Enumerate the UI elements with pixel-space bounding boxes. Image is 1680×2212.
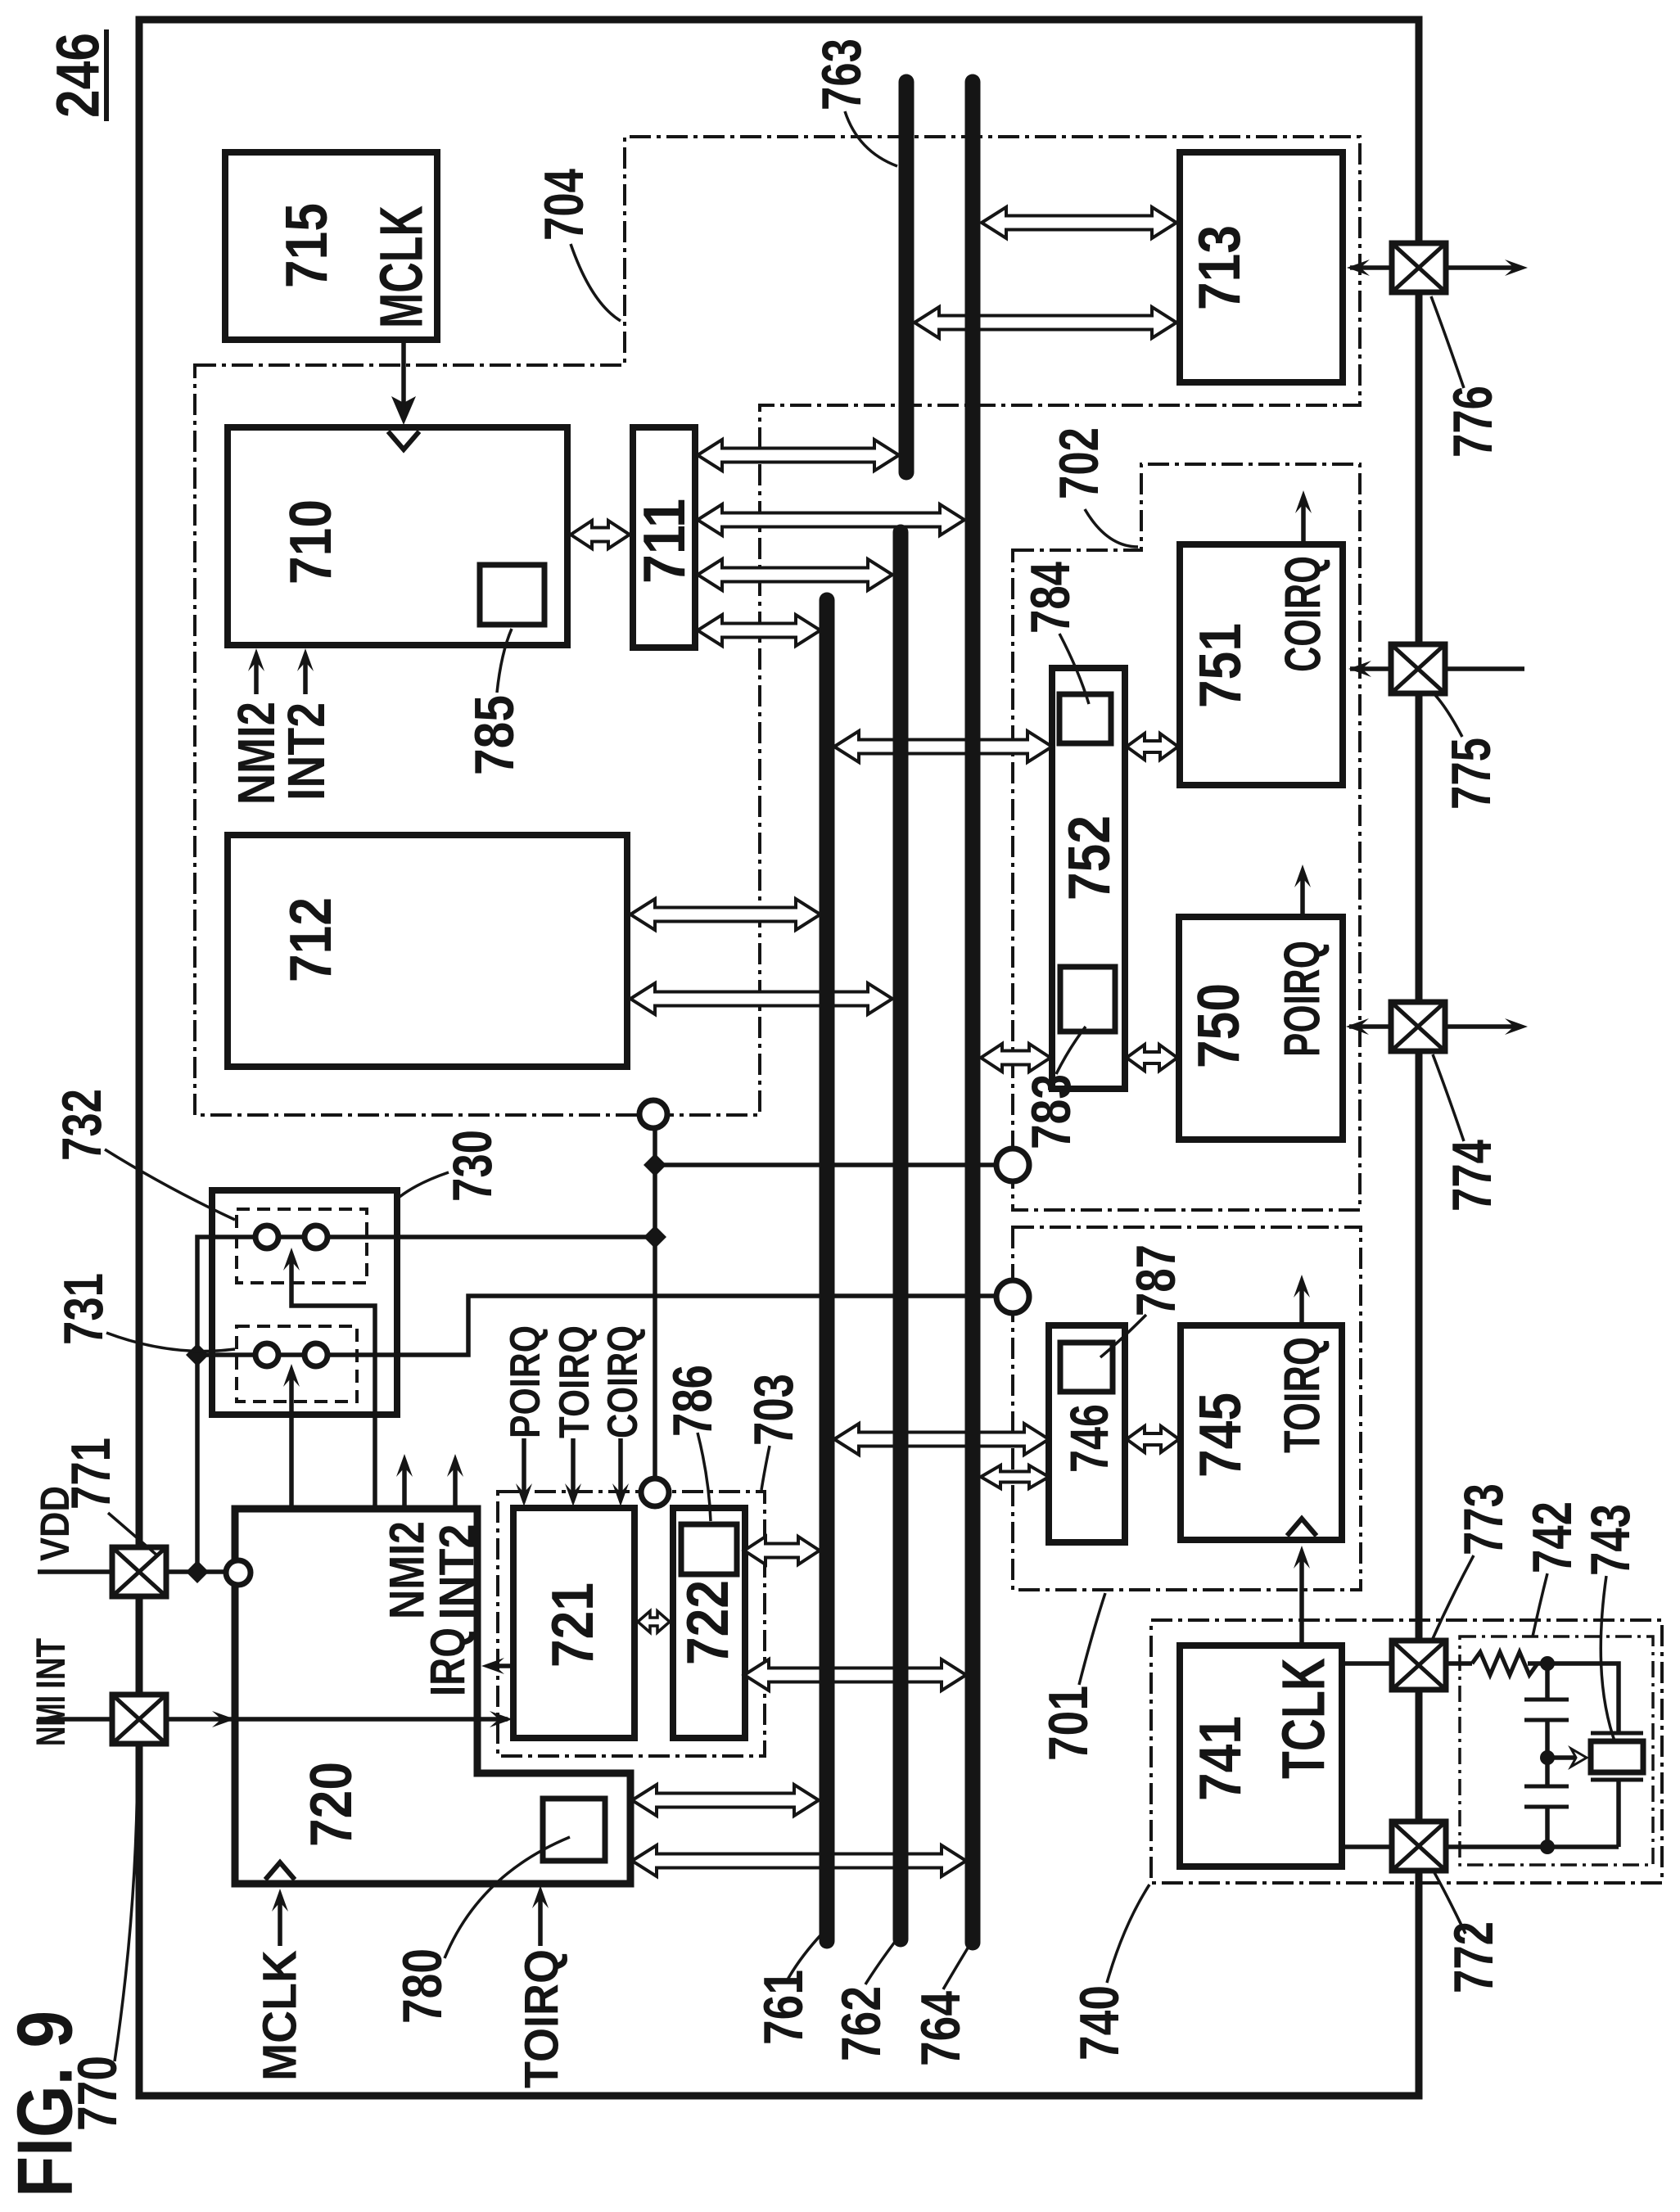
svg-text:NMI: NMI [28,1695,74,1746]
svg-text:720: 720 [299,1762,364,1847]
svg-text:775: 775 [1440,738,1502,810]
TOIRQ arrow into 721 [571,1438,576,1495]
bus arrow 720 - bus764 [632,1845,966,1876]
svg-text:IRQ: IRQ [421,1627,476,1696]
leader 783 [1056,1027,1086,1074]
region 702 dash-dot boundary [1013,464,1360,1210]
region 742 dash-dot boundary (crystal circuit) [1460,1636,1653,1865]
bus arrow bus763 - 713 [915,307,1176,338]
bus arrow bus764 - 746 [981,1465,1049,1488]
svg-text:703: 703 [743,1374,805,1446]
svg-text:711: 711 [632,499,698,584]
bus arrow bus764 - 713 [982,207,1176,238]
register 780 inside 720 [543,1799,605,1861]
INT2 arrow into 710 [303,657,308,694]
TCLK lower line through pad 772 [1342,1844,1619,1849]
svg-text:786: 786 [662,1365,724,1437]
I/O line of 713 through pad 776 [1350,265,1521,270]
svg-text:TOIRQ: TOIRQ [1275,1337,1331,1453]
node on lower TCLK line [1540,1840,1555,1854]
NMI INT input line through pad 770 [38,1717,508,1722]
register 785 inside 710 [480,565,544,625]
terminal circle VDD at 720 edge [226,1560,251,1585]
svg-text:NMI2: NMI2 [380,1521,435,1619]
svg-text:713: 713 [1187,225,1253,310]
svg-text:746: 746 [1059,1404,1119,1473]
svg-text:MCLK: MCLK [254,1950,307,2081]
COIRQ arrow into 721 [618,1438,623,1495]
svg-text:TOIRQ: TOIRQ [516,1949,569,2088]
bus arrow 711 - bus763 [698,440,899,471]
svg-text:MCLK: MCLK [368,205,436,328]
svg-text:741: 741 [1188,1716,1253,1801]
svg-text:771: 771 [60,1438,122,1510]
wire to region 702 boundary circle [655,1162,996,1167]
crystal bottom plate [1591,1778,1643,1782]
bus arrow 720 - bus761 [632,1785,819,1816]
leader 761 [788,1934,822,1980]
bus 761 [820,600,835,1941]
node circle on region 703 boundary [641,1478,669,1506]
svg-text:761: 761 [752,1970,815,2045]
chevron notch on 745 bottom edge [1287,1519,1316,1536]
leader 702 [1085,509,1138,547]
bus arrow 722 - bus764 [744,1659,966,1691]
capacitor lower [1545,1758,1550,1786]
bus arrow 711 - bus764 [698,504,964,535]
leader 762 [865,1942,895,1984]
leader 730 [400,1172,449,1197]
bus arrow 711 - bus762 [698,559,892,590]
leader 770 [115,1754,138,2061]
bus arrow bus764 - 752 [981,1044,1050,1072]
block 720 sub-CPU (L-shaped) [235,1509,630,1884]
svg-text:783: 783 [1020,1074,1082,1149]
bus arrow 722 - bus761 [744,1537,820,1564]
TCLK upper line through pad 773 [1342,1661,1472,1666]
block 746 [1049,1325,1125,1542]
leader 785 [497,629,512,693]
node circle on region 701 boundary [996,1280,1029,1313]
svg-text:773: 773 [1452,1483,1515,1555]
svg-text:780: 780 [391,1948,454,2024]
switch 731 contact a [255,1343,278,1366]
region 701 dash-dot boundary [1013,1227,1361,1590]
POIRQ arrow out of 750 [1300,876,1305,917]
chevron notch on 710 top edge [388,431,419,449]
block 712 memory [228,835,627,1067]
node circle on region 702 boundary [996,1149,1029,1181]
block 711 bus interface [633,427,695,648]
bus arrow 746 - 745 [1127,1426,1179,1452]
leader 703 [761,1446,770,1490]
capacitor upper [1545,1664,1550,1700]
MCLK arrow into 720 [278,1901,282,1946]
I/O pad 772 [1392,1822,1446,1871]
arrowhead of MCLK wire into 710 [391,396,416,425]
block 745 timer TOIRQ [1181,1325,1342,1540]
leader 731 [106,1333,235,1352]
wire resistor to crystal top [1528,1664,1619,1733]
svg-text:COIRQ: COIRQ [1276,556,1332,672]
NMI2 arrow out of 720 [402,1464,407,1509]
junction x800/y1423 [644,1153,666,1176]
svg-text:764: 764 [910,1991,972,2066]
switch 731 dashed box [237,1326,357,1402]
svg-text:776: 776 [1442,386,1504,458]
bus arrow 752 - 750 [1127,1045,1177,1071]
region 703 dash-dot boundary [498,1492,765,1756]
junction VDD riser to switch 731 wire [186,1343,209,1366]
svg-text:743: 743 [1579,1504,1642,1576]
leader 776 [1431,296,1464,388]
block 710 CPU [228,427,567,645]
bus arrow 712 - bus762 [630,983,892,1014]
leader 774 [1433,1054,1464,1141]
underline for 246 [104,29,109,121]
leader 780 [445,1837,570,1958]
small arrow to crystal 743 [1554,1755,1577,1760]
block 752 [1052,668,1125,1089]
svg-text:740: 740 [1068,1985,1131,2061]
crystal top plate [1591,1731,1643,1736]
leader 773 [1431,1555,1474,1642]
INT2 arrow out of 720 [453,1464,458,1509]
svg-text:784: 784 [1019,562,1082,634]
leader 740 [1107,1885,1149,1983]
switch block 730 [212,1190,397,1415]
TCLK arrow 741 to 745 [1299,1555,1304,1645]
bus arrow 712 - bus761 [630,899,820,930]
switch 732 dashed box [237,1209,367,1283]
svg-text:730: 730 [441,1130,504,1202]
switch 731 contact b [305,1343,327,1366]
node at resistor output [1540,1656,1555,1671]
leader 732 [105,1149,235,1220]
svg-text:701: 701 [1037,1686,1100,1761]
svg-text:751: 751 [1188,623,1253,708]
block 713 I/O port [1180,152,1343,382]
svg-text:710: 710 [278,499,344,585]
svg-text:INT: INT [28,1638,74,1689]
leader 786 [698,1433,711,1521]
register 787 inside 746 [1060,1343,1113,1392]
svg-text:704: 704 [533,169,595,241]
bus 764 [965,82,981,1943]
switch 731 output wire to region 701 [197,1296,997,1355]
register 786 inside 722 [681,1524,737,1574]
leader 771 [108,1513,157,1555]
bus arrow 710 - 711 [571,521,630,548]
leader 701 [1079,1593,1105,1685]
svg-text:763: 763 [811,38,873,111]
switch 732 contact b [305,1226,327,1248]
C0IRQ input line through pad 775 [1350,666,1524,671]
svg-text:POIRQ: POIRQ [1275,941,1331,1057]
leader 742 [1533,1573,1547,1636]
leader 743 [1601,1576,1616,1745]
COIRQ arrow out of 751 [1301,502,1306,544]
svg-text:TOIRQ: TOIRQ [551,1325,598,1438]
bus arrow bus761 - 746 [834,1424,1049,1455]
junction on VDD line [186,1560,209,1583]
bus arrow bus761 - 752 [834,731,1052,762]
I/O pad 775 [1391,644,1445,693]
block 750 port POIRQ [1179,917,1343,1140]
outer chip boundary frame [139,20,1419,2096]
bus arrow 711 - bus761 [698,615,820,646]
NMI2 arrow into 710 [254,657,259,694]
svg-text:722: 722 [675,1580,741,1665]
svg-text:731: 731 [52,1273,115,1345]
block 722 bus interface [673,1508,745,1738]
switch 731 control arrow [289,1377,294,1509]
leader 787 [1100,1315,1146,1357]
svg-text:INT2: INT2 [430,1524,485,1620]
svg-text:732: 732 [51,1089,113,1161]
svg-text:TCLK: TCLK [1270,1658,1338,1779]
wire MCLK from 715 to 710 [401,340,406,408]
IRQ arrow 721 to 720 [488,1664,513,1668]
block 741 TCLK timer clock [1180,1645,1342,1867]
resistor in 742 [1472,1652,1538,1675]
svg-text:721: 721 [540,1582,606,1668]
block 715 MCLK oscillator [225,152,437,340]
svg-text:715: 715 [274,203,340,288]
junction x800/y1511 [644,1226,666,1248]
register 784 inside 752 [1059,694,1111,743]
svg-text:752: 752 [1057,815,1122,901]
I/O pad 776 [1392,243,1446,292]
node circle on region 704 boundary [639,1100,667,1128]
svg-text:246: 246 [44,33,112,118]
VDD input line through pad 771 [38,1569,227,1574]
region 704 dash-dot boundary [195,137,1360,1115]
svg-text:FIG. 9: FIG. 9 [2,2011,89,2197]
svg-text:750: 750 [1186,983,1252,1068]
svg-text:787: 787 [1125,1244,1187,1316]
switch 732 contact a [255,1226,278,1248]
bus 763 [899,82,915,472]
chevron notch on 720 bottom edge [265,1862,295,1880]
I/O pad 771 (VDD) [112,1547,166,1596]
TOIRQ arrow out of 745 [1299,1287,1304,1325]
TOIRQ arrow into 720 [538,1896,543,1946]
svg-text:745: 745 [1188,1393,1253,1478]
leader 775 [1433,693,1462,737]
node between capacitors [1540,1750,1555,1765]
svg-text:INT2: INT2 [277,702,336,801]
svg-text:785: 785 [463,695,526,775]
POIRQ arrow into 721 [522,1438,526,1495]
leader 764 [943,1947,969,1989]
leader 704 [571,244,621,321]
svg-text:POIRQ: POIRQ [502,1325,549,1438]
leader 772 [1433,1870,1465,1934]
svg-text:702: 702 [1048,427,1110,499]
bus arrow 752 - 751 [1127,734,1178,760]
leader 784 [1059,634,1089,704]
region 740 dash-dot boundary [1151,1620,1662,1883]
register 783 inside 752 [1060,967,1115,1032]
bus arrow 721 - 722 [638,1611,670,1632]
bus 762 [893,532,909,1939]
crystal 743 body [1591,1741,1643,1772]
VDD riser wire to switch contacts [197,1237,655,1572]
switch 732 control arrow [291,1261,375,1509]
svg-text:762: 762 [830,1986,892,2061]
I/O pad 770 (NMI/INT) [112,1695,166,1744]
svg-text:COIRQ: COIRQ [599,1325,647,1438]
I/O pad 774 [1391,1002,1445,1051]
wire to crystal bottom [1616,1780,1621,1847]
svg-text:772: 772 [1443,1921,1505,1993]
I/O pad 773 [1392,1641,1446,1690]
I/O line of 750 through pad 774 [1349,1024,1521,1029]
svg-text:774: 774 [1441,1140,1503,1212]
svg-text:742: 742 [1521,1501,1583,1573]
svg-text:712: 712 [278,897,344,982]
interrupt node column x=800 [653,1128,657,1478]
block 751 port COIRQ [1180,544,1343,785]
block 721 interrupt controller [513,1508,635,1738]
leader 763 [845,111,897,166]
